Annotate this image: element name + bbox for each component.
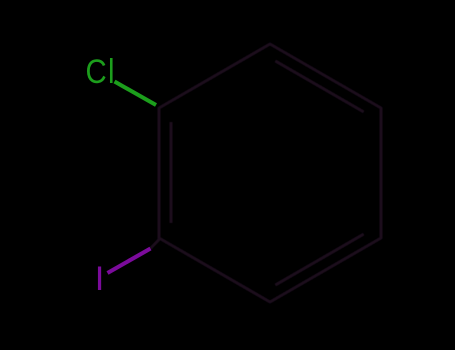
bond Cl-C1 (green) <box>115 82 157 106</box>
double bond inner line bottom-right edge <box>275 234 363 285</box>
bond I-C6 (purple) <box>108 249 151 274</box>
double bond inner line left edge <box>170 122 173 223</box>
benzene ring C1-C6 <box>159 44 381 302</box>
svg-text:Cl: Cl <box>85 52 115 91</box>
wire: dark stub from purple bond to ring vertex <box>151 240 160 249</box>
double bond inner line top-right edge <box>275 61 363 112</box>
svg-text:I: I <box>95 260 105 298</box>
